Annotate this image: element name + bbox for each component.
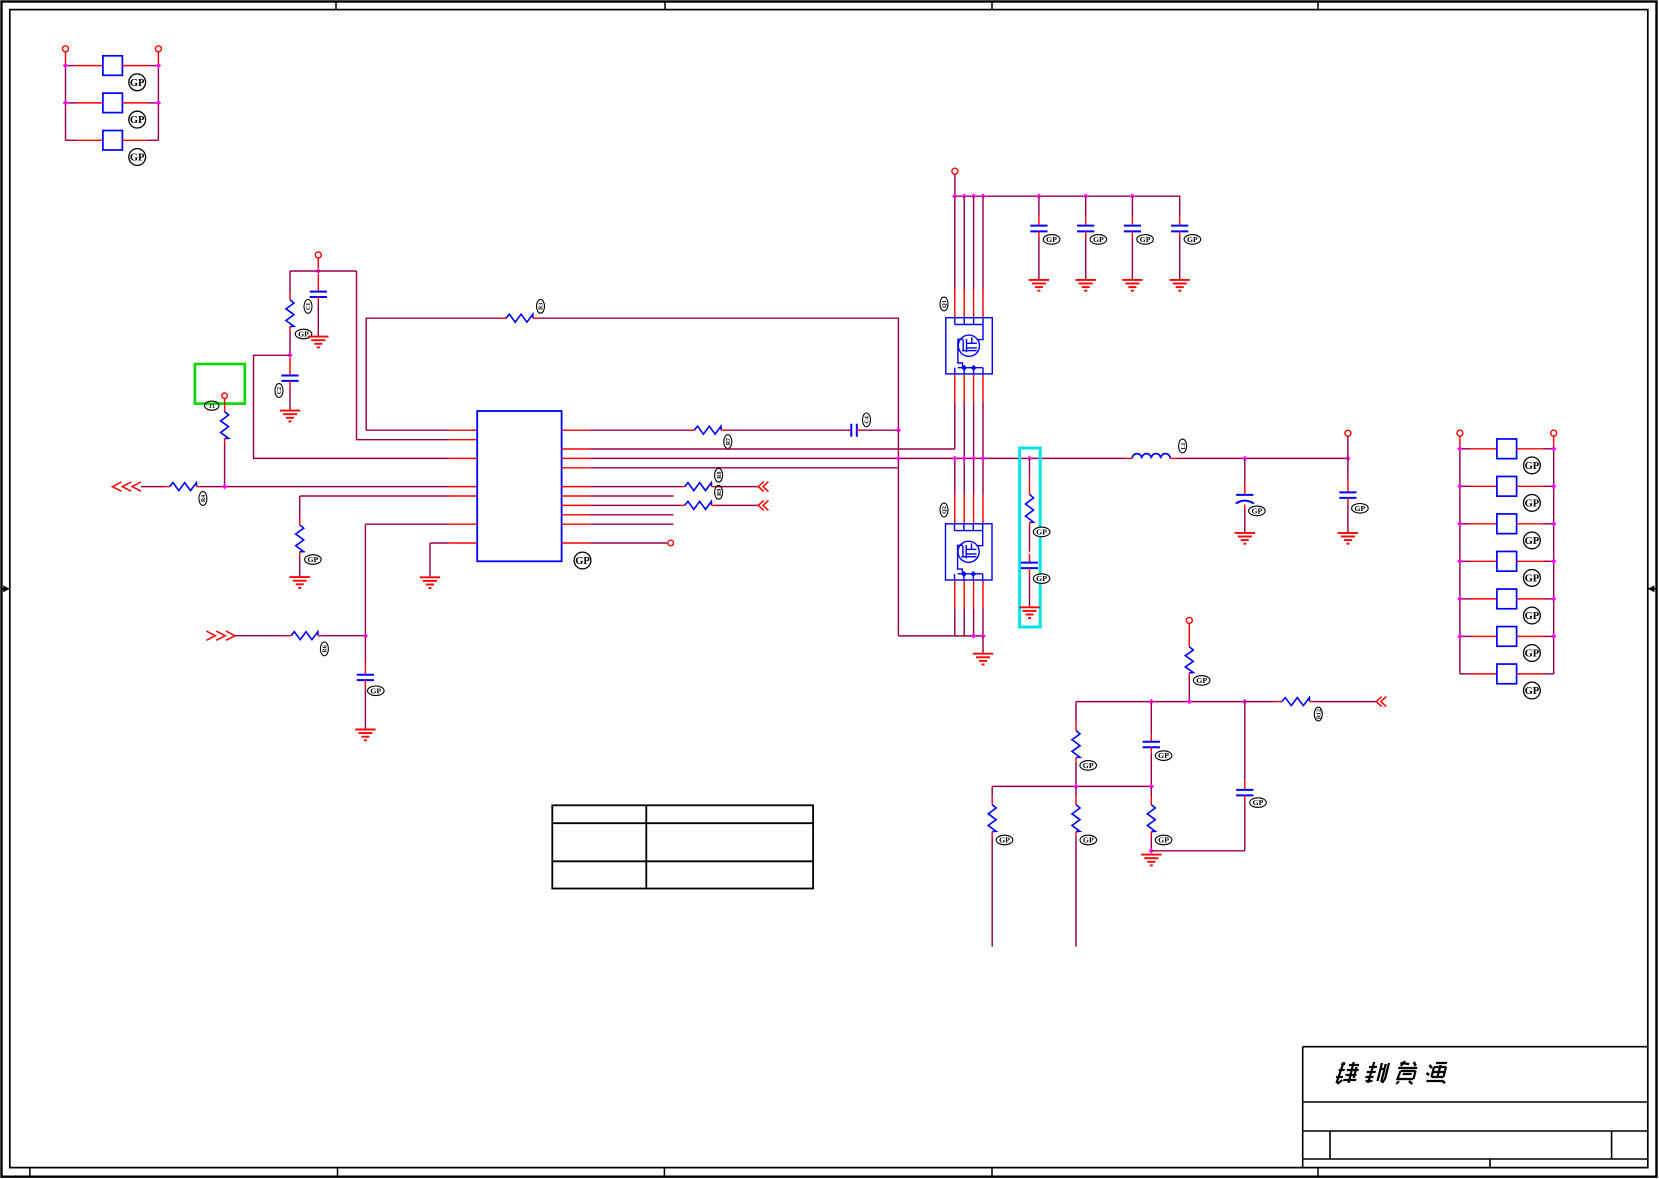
capacitor C13 xyxy=(1236,790,1253,796)
wire C2-gnd xyxy=(289,386,291,411)
resistor R5 xyxy=(296,525,304,552)
pin lead red IC pin7 left xyxy=(449,542,478,544)
pin lead red IC right xyxy=(562,523,591,525)
label GP (R11) xyxy=(1193,676,1210,686)
ground xyxy=(1029,280,1049,291)
junction xyxy=(1073,784,1078,789)
lead red R4 right xyxy=(197,486,201,488)
lead red C8 top xyxy=(1179,216,1181,226)
wire pin r1 to R7 xyxy=(590,429,689,431)
pin lead red row 3 left xyxy=(76,139,103,141)
highlight box (green) xyxy=(195,364,245,404)
resistor R9 xyxy=(685,501,712,509)
svg-text:GP: GP xyxy=(1525,499,1540,510)
svg-text:R3: R3 xyxy=(539,303,545,310)
wire FET rail lower xyxy=(963,609,965,636)
svg-text:GP: GP xyxy=(1354,504,1365,513)
terminal T4 xyxy=(222,393,228,399)
lead red C11 bottom xyxy=(1347,498,1349,503)
border zone tick bottom 2 xyxy=(663,1168,665,1176)
wire C7-gnd xyxy=(1131,237,1133,280)
wire red col stub left xyxy=(1459,436,1461,449)
transistor Q1 xyxy=(946,318,993,374)
jumper GP3 xyxy=(103,131,123,151)
border zone tick bottom 0 xyxy=(29,1168,31,1176)
lead red R5 bottom xyxy=(299,552,301,556)
svg-text:GP: GP xyxy=(1525,686,1540,697)
wire FET rail mid2 xyxy=(973,458,975,494)
wire IC pin6 left xyxy=(365,523,448,525)
lead red R15 bottom xyxy=(1075,832,1077,837)
label GP (R13) xyxy=(1080,761,1097,771)
wire FET rail middle xyxy=(982,402,984,458)
designator R6 xyxy=(320,642,328,656)
junction xyxy=(156,63,161,68)
wire pin r8 stub xyxy=(590,514,673,516)
lead red C13 xyxy=(1244,780,1246,790)
lead red R14 bottom xyxy=(991,832,993,837)
ground xyxy=(1076,280,1096,291)
wire C12 top xyxy=(1150,702,1152,735)
wire cap C5 drop xyxy=(1038,196,1040,216)
wire cap C6 drop xyxy=(1085,196,1087,216)
svg-text:GP: GP xyxy=(1251,507,1262,516)
lead red C1 top xyxy=(317,274,319,292)
wire SW bus xyxy=(590,457,1125,459)
wire FET rail middle xyxy=(963,402,965,458)
wire red FET rail q1 in xyxy=(963,290,965,319)
lead red C5 bottom xyxy=(1038,231,1040,237)
junction xyxy=(971,456,976,461)
jumper GP6 xyxy=(1497,514,1517,534)
svg-text:GP: GP xyxy=(1083,836,1094,845)
wire C5-gnd xyxy=(1038,237,1040,280)
svg-text:R8: R8 xyxy=(717,472,723,479)
lead red R12 left xyxy=(1277,701,1282,703)
wire C10 drop xyxy=(1244,458,1246,483)
svg-text:GP: GP xyxy=(307,555,318,564)
wire col row 3 left xyxy=(1460,523,1471,525)
designator C2 xyxy=(275,384,283,398)
svg-text:R12: R12 xyxy=(1317,709,1323,719)
wire col row 5 left xyxy=(1460,598,1471,600)
wire R15 top xyxy=(1075,786,1077,797)
lead red R1 bottom xyxy=(224,439,226,443)
designator R9 xyxy=(715,485,723,499)
resistor R16 xyxy=(1147,805,1155,832)
lead red C11 top xyxy=(1347,479,1349,492)
junction xyxy=(962,194,967,199)
pin lead red row 2 right xyxy=(122,102,148,104)
ground xyxy=(1141,855,1161,866)
junction xyxy=(316,268,321,273)
pin lead red IC right xyxy=(562,429,591,431)
designator L1 xyxy=(1179,439,1187,453)
ground xyxy=(420,577,440,588)
pin lead red row 1 left xyxy=(76,65,103,67)
lead red R5 xyxy=(299,519,301,525)
resistor R6 xyxy=(291,632,318,640)
border zone tick bottom 3 xyxy=(991,1168,993,1176)
svg-text:GP: GP xyxy=(1036,528,1047,537)
wire node B down xyxy=(364,636,366,662)
wire feedback loop left xyxy=(366,318,500,430)
label GP (C12) xyxy=(1155,751,1172,761)
pin lead red IC pin2 left xyxy=(449,439,478,441)
wire col row 2 right xyxy=(1543,485,1554,487)
lead red R15 xyxy=(1075,797,1077,804)
designator Q2 xyxy=(940,503,948,517)
svg-text:Q1: Q1 xyxy=(942,300,948,308)
wire R1 down xyxy=(224,443,226,487)
lead red R11 top xyxy=(1188,623,1190,646)
lead red R16 bottom xyxy=(1150,832,1152,837)
lead red C13 bottom xyxy=(1244,795,1246,801)
wire red FET rail q2 out xyxy=(963,580,965,609)
terminal T8 xyxy=(1186,617,1192,623)
wire red stub T1 xyxy=(65,52,67,66)
wire fb to R12 xyxy=(1245,701,1278,703)
ground xyxy=(1122,280,1142,291)
wire R14 tail xyxy=(991,837,993,947)
label GP10 xyxy=(1524,682,1541,699)
label GP (C7) xyxy=(1137,235,1154,245)
inductor L1 xyxy=(1132,454,1170,459)
lead red L1 right xyxy=(1170,457,1177,459)
lead red C3 top xyxy=(364,662,366,675)
wire pin r10 to terminal xyxy=(590,542,667,544)
capacitor C9 xyxy=(1021,563,1038,569)
junction xyxy=(287,353,292,358)
wire C8-gnd xyxy=(1179,237,1181,280)
wire FET rail mid2 xyxy=(954,458,956,494)
resistor R4 xyxy=(170,483,197,491)
label GP (C10) xyxy=(1249,506,1266,516)
junction xyxy=(896,456,901,461)
capacitor C1 xyxy=(310,292,327,297)
junction xyxy=(1457,559,1462,564)
svg-text:GP: GP xyxy=(1140,235,1151,244)
label GP7 xyxy=(1524,570,1541,587)
wire node to IC pin2 xyxy=(357,271,449,440)
wire port B xyxy=(235,635,288,637)
lead red R6 right xyxy=(318,635,322,637)
wire loop to pin1 xyxy=(366,429,449,431)
border zone tick top 3 xyxy=(991,2,993,10)
ground xyxy=(308,337,328,348)
wire FET rail lower xyxy=(954,609,956,636)
wire col row 3 right xyxy=(1543,523,1554,525)
border mid arrow left xyxy=(2,585,10,592)
terminal T10 xyxy=(1551,430,1557,436)
wire C12 down xyxy=(1150,753,1152,787)
wire power bus xyxy=(955,196,1180,216)
lead red R7 right xyxy=(721,429,726,431)
lead red C6 bottom xyxy=(1085,231,1087,237)
junction xyxy=(1457,484,1462,489)
lead red R8 left xyxy=(680,486,685,488)
wire R2 top xyxy=(289,271,291,294)
junction xyxy=(1457,521,1462,526)
wire R13 down xyxy=(1075,762,1077,786)
lead red C9 bottom xyxy=(1029,568,1031,573)
resistor R11 xyxy=(1185,647,1193,673)
wire col row 4 right xyxy=(1543,560,1554,562)
wire FET rail lower xyxy=(973,609,975,636)
wire pin r5 to R8 xyxy=(590,486,680,488)
ground xyxy=(290,577,310,588)
pin lead red col row 7 left xyxy=(1471,673,1497,675)
wire red FET rail q2 out xyxy=(954,580,956,609)
label GP (R16) xyxy=(1155,835,1172,845)
wire gnd stem xyxy=(982,636,984,654)
capacitor C5 xyxy=(1030,226,1047,232)
port chevrons input A xyxy=(112,482,141,491)
pin lead red col row 5 left xyxy=(1471,598,1497,600)
pin lead red col row 6 left xyxy=(1471,635,1497,637)
ground xyxy=(1170,280,1190,291)
wire red FET rail q2 out xyxy=(973,580,975,609)
junction xyxy=(1345,456,1350,461)
lead red C9 top xyxy=(1029,554,1031,563)
port chevrons input B xyxy=(206,631,235,640)
wire C10-gnd xyxy=(1244,509,1246,533)
junction xyxy=(952,456,957,461)
wire R2-C2 xyxy=(289,331,291,355)
pin lead red IC pin5 left xyxy=(449,495,478,497)
title text (company logotype) xyxy=(1334,1061,1450,1084)
svg-text:GP: GP xyxy=(999,836,1010,845)
terminal T9 xyxy=(1457,430,1463,436)
terminal T7 xyxy=(1345,430,1351,436)
pin lead red col row 4 left xyxy=(1471,560,1497,562)
junction xyxy=(1036,194,1041,199)
svg-text:GP: GP xyxy=(1525,574,1540,585)
junction xyxy=(222,484,227,489)
wire col row 1 left xyxy=(1460,448,1471,450)
label GP8 xyxy=(1524,607,1541,624)
wire FET rail middle xyxy=(954,402,956,449)
wire col row 5 right xyxy=(1543,598,1554,600)
terminal T6 (power) xyxy=(952,168,958,174)
wire C11-gnd xyxy=(1347,503,1349,533)
resistor R3 xyxy=(506,314,533,322)
label GP (C13) xyxy=(1250,798,1267,808)
lead red R2 bottom xyxy=(289,327,291,331)
wire R13 top xyxy=(1075,702,1077,723)
wire R6 to node B xyxy=(322,635,366,637)
ground xyxy=(973,654,993,665)
svg-text:GP: GP xyxy=(1525,649,1540,660)
pin lead red IC right xyxy=(562,448,591,450)
wire R10 top xyxy=(1029,458,1031,478)
jumper GP5 xyxy=(1497,476,1517,496)
junction xyxy=(980,456,985,461)
svg-text:R9: R9 xyxy=(717,489,723,496)
wire pin r7 to R9 xyxy=(590,504,680,506)
wire source bus bottom xyxy=(898,635,983,637)
capacitor C7 xyxy=(1124,226,1141,232)
lead red C7 bottom xyxy=(1131,231,1133,237)
designator Q1 xyxy=(940,297,948,311)
jumper GP8 xyxy=(1497,589,1517,609)
jumper GP9 xyxy=(1497,627,1517,647)
designator R12 xyxy=(1314,707,1322,721)
wire row 3 right lead xyxy=(148,139,158,141)
designator R3 xyxy=(537,299,545,313)
junction xyxy=(1551,596,1556,601)
designator J1 xyxy=(205,401,219,410)
wire terminal to bus xyxy=(954,174,956,196)
border zone tick top 2 xyxy=(664,2,666,10)
junction xyxy=(1457,446,1462,451)
pin lead red col row 7 right xyxy=(1517,673,1543,675)
wire IC pin3 left net xyxy=(254,355,449,458)
junction xyxy=(962,456,967,461)
revision table xyxy=(552,805,813,888)
junction xyxy=(952,194,957,199)
junction xyxy=(1149,699,1154,704)
wire col left rail xyxy=(1459,449,1461,674)
svg-text:C2: C2 xyxy=(277,387,283,394)
svg-text:Q2: Q2 xyxy=(942,506,948,514)
ground xyxy=(280,411,300,422)
lead red C10 top xyxy=(1244,483,1246,495)
wire left rail xyxy=(65,66,67,141)
label GP (C6) xyxy=(1090,235,1107,245)
resistor R8 xyxy=(685,483,712,491)
wire pin7 down xyxy=(429,543,431,577)
terminal T3 xyxy=(315,252,321,258)
lead red R10 bottom xyxy=(1029,522,1031,527)
designator C1 xyxy=(304,300,312,314)
svg-text:GP: GP xyxy=(1158,751,1169,760)
lead red L1 left xyxy=(1126,457,1133,459)
junction xyxy=(1149,784,1154,789)
wire red FET rail q2 in xyxy=(973,495,975,524)
lead red R8 right xyxy=(712,486,716,488)
svg-text:C4: C4 xyxy=(865,416,871,423)
svg-text:GP: GP xyxy=(130,153,145,164)
pin lead red IC pin1 left xyxy=(449,429,478,431)
svg-text:C1: C1 xyxy=(306,303,312,310)
junction xyxy=(1130,194,1135,199)
pin lead red IC right xyxy=(562,467,591,469)
svg-text:GP: GP xyxy=(1093,235,1104,244)
port chevrons out D xyxy=(758,500,768,510)
lead red R13 xyxy=(1075,723,1077,731)
pin lead red col row 2 left xyxy=(1471,485,1497,487)
lead red C1 bottom xyxy=(317,297,319,302)
label GP (C8) xyxy=(1184,235,1201,245)
pin lead red col row 4 right xyxy=(1517,560,1543,562)
pin lead red IC right xyxy=(562,514,591,516)
svg-text:GP: GP xyxy=(1525,536,1540,547)
label GP (R15) xyxy=(1080,835,1097,845)
wire red col stub right xyxy=(1553,436,1555,449)
terminal T1 xyxy=(63,46,69,52)
ground xyxy=(1235,533,1255,544)
pin lead red col row 1 right xyxy=(1517,448,1543,450)
wire red stub T2 xyxy=(157,52,159,66)
wire col row 1 right xyxy=(1543,448,1554,450)
junction xyxy=(363,633,368,638)
wire IC pin7 left xyxy=(430,542,449,544)
wire R10-C9 xyxy=(1029,527,1031,552)
resistor R1 xyxy=(221,412,229,439)
wire node bus xyxy=(290,270,357,272)
wire cap C7 drop xyxy=(1131,196,1133,216)
border zone tick bottom 1 xyxy=(337,1168,339,1176)
wire row 2 right lead xyxy=(148,102,158,104)
lead red R9 right xyxy=(712,504,716,506)
wire col row 6 left xyxy=(1460,635,1471,637)
pin lead red col row 2 right xyxy=(1517,485,1543,487)
pin lead red IC right xyxy=(562,486,591,488)
resistor R2 xyxy=(286,300,294,327)
highlight box (cyan) xyxy=(1020,448,1041,627)
wire pin r4 xyxy=(590,467,898,469)
lead red R1 top xyxy=(224,399,226,412)
lead red C3 bottom xyxy=(364,680,366,685)
wire IC pin5 left xyxy=(300,495,449,497)
wire lower bus xyxy=(992,785,1151,787)
label GP5 xyxy=(1524,495,1541,512)
wire R12 to port xyxy=(1314,701,1376,703)
wire col right rail xyxy=(1553,449,1555,674)
wire C3-gnd xyxy=(364,685,366,730)
junction xyxy=(896,428,901,433)
label GP (C9) xyxy=(1033,574,1050,584)
lead red C4 left xyxy=(847,429,852,431)
junction xyxy=(971,633,976,638)
capacitor C6 xyxy=(1077,226,1094,232)
label GP (C5) xyxy=(1043,235,1060,245)
wire R14 top xyxy=(991,786,993,797)
wire red FET rail q2 in xyxy=(982,495,984,524)
svg-text:L1: L1 xyxy=(1181,442,1187,449)
lead red R16 xyxy=(1150,797,1152,804)
ground xyxy=(1019,607,1039,618)
capacitor C10 (polarized) xyxy=(1236,495,1254,504)
svg-text:R6: R6 xyxy=(323,645,329,652)
pin lead red row 3 right xyxy=(122,139,148,141)
lead red C2 bottom xyxy=(289,381,291,386)
wire col row 7 right xyxy=(1543,673,1554,675)
pin lead red IC right xyxy=(562,495,591,497)
svg-text:GP: GP xyxy=(1525,461,1540,472)
wire row 2 left lead xyxy=(66,102,77,104)
pin lead red IC pin6 left xyxy=(449,523,478,525)
junction xyxy=(971,194,976,199)
wire gnd node to C13 xyxy=(1151,850,1245,852)
wire C4 to node xyxy=(862,429,898,431)
pin lead red IC pin4 left xyxy=(449,486,478,488)
port chevrons out E xyxy=(1376,697,1386,707)
label GP (U1) xyxy=(574,552,591,569)
wire red FET rail q1 out xyxy=(982,373,984,402)
svg-text:R4: R4 xyxy=(201,495,207,502)
wire pin r9 stub xyxy=(590,523,673,525)
capacitor C11 xyxy=(1339,492,1356,498)
wire red FET rail q1 in xyxy=(982,290,984,319)
designator R7 xyxy=(724,435,732,449)
svg-text:GP: GP xyxy=(130,78,145,89)
resistor R7 xyxy=(694,426,721,434)
svg-text:GP: GP xyxy=(298,330,309,339)
wire C1-gnd xyxy=(317,302,319,337)
svg-text:GP: GP xyxy=(1036,574,1047,583)
